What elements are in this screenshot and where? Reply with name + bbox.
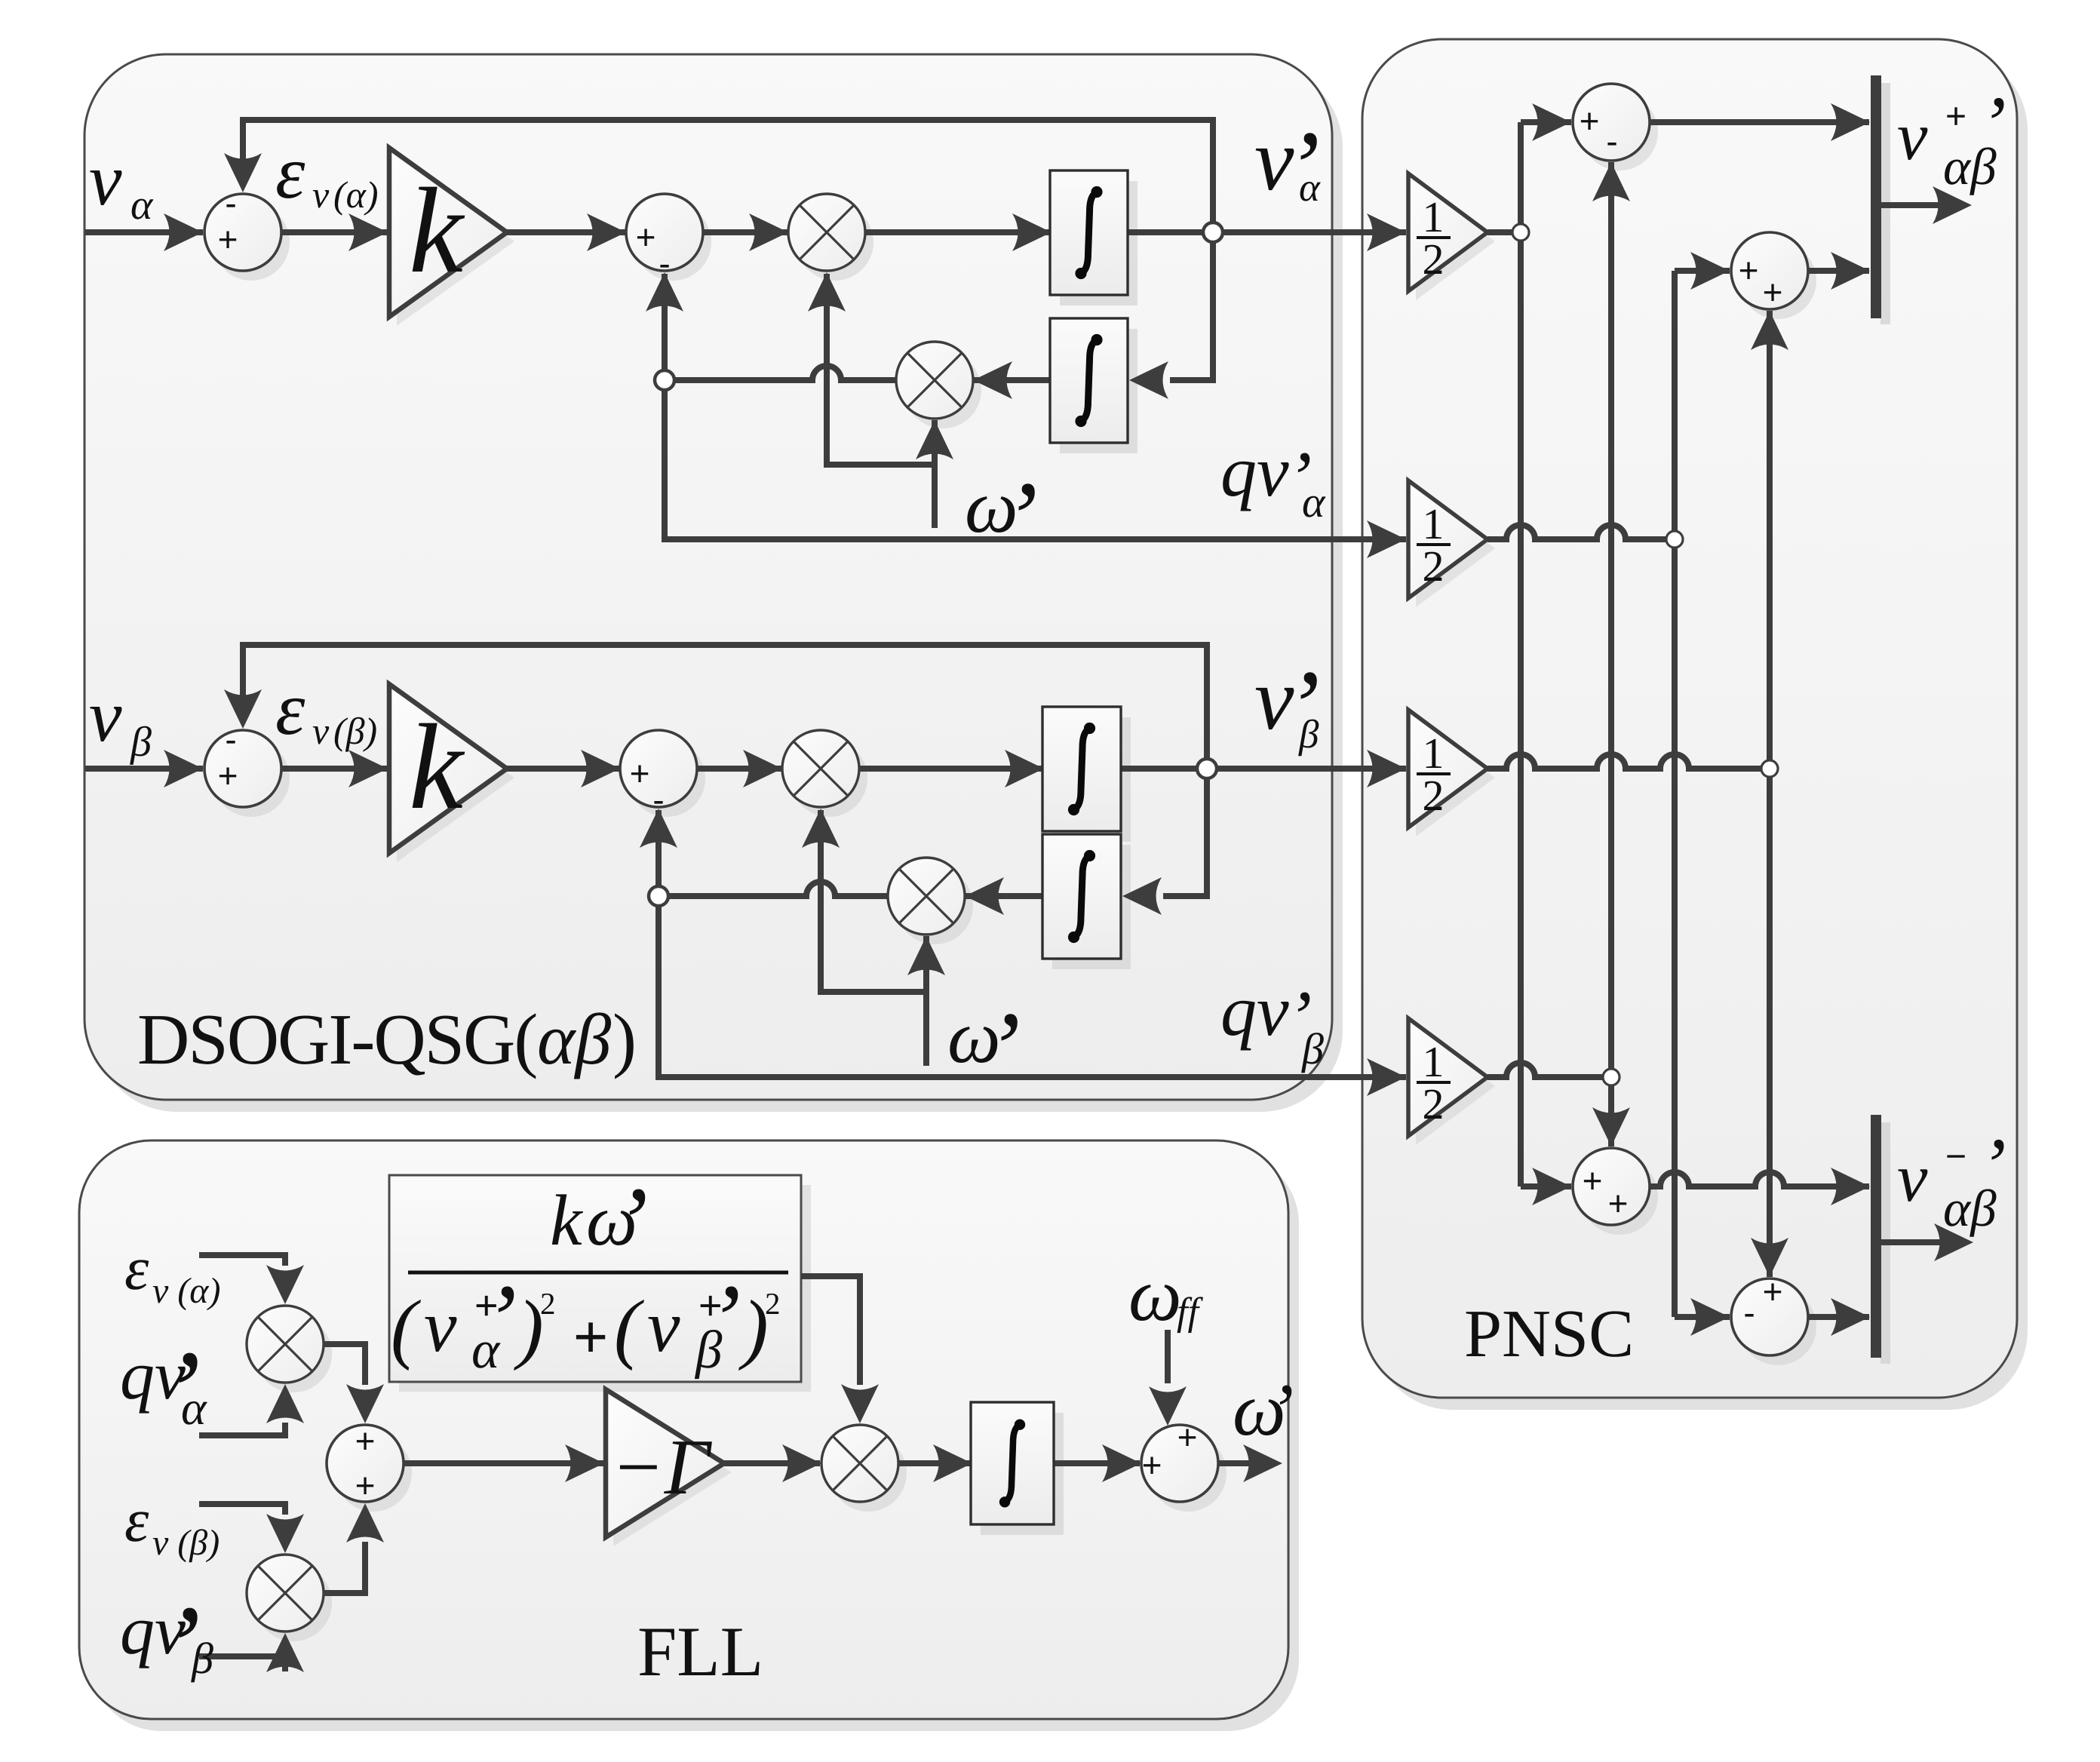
svg-text:): )	[738, 1285, 769, 1371]
svg-text:(: (	[391, 1285, 421, 1371]
svg-text:−: −	[1945, 1137, 1966, 1177]
svg-text:+: +	[1608, 1183, 1629, 1223]
svg-text:+: +	[1177, 1417, 1198, 1457]
svg-text:): )	[514, 1285, 544, 1371]
svg-text:ε: ε	[124, 1486, 149, 1555]
svg-text:v (β): v (β)	[152, 1523, 220, 1563]
svg-text:β: β	[130, 719, 152, 766]
svg-text:2: 2	[1423, 771, 1445, 820]
svg-text:α: α	[130, 182, 154, 229]
svg-text:(: (	[614, 1285, 644, 1371]
svg-text:αβ: αβ	[537, 999, 611, 1079]
svg-text:αβ: αβ	[1943, 1180, 1997, 1237]
svg-text:+: +	[1142, 1445, 1162, 1484]
svg-text:DSOGI-QSG(: DSOGI-QSG(	[137, 999, 536, 1079]
svg-text:FLL: FLL	[637, 1613, 763, 1691]
svg-text:+: +	[573, 1303, 608, 1370]
svg-text:qv: qv	[1220, 970, 1289, 1051]
svg-text:+: +	[1580, 101, 1600, 140]
svg-text:v (α): v (α)	[152, 1271, 220, 1311]
svg-text:k: k	[409, 164, 465, 299]
svg-text:β: β	[1298, 713, 1319, 757]
svg-text:2: 2	[1423, 1079, 1445, 1128]
svg-text:β: β	[191, 1634, 213, 1683]
svg-text:+: +	[218, 756, 238, 795]
svg-text:(β): (β)	[333, 710, 377, 752]
svg-text:v: v	[312, 173, 330, 216]
svg-text:’: ’	[986, 990, 1021, 1106]
svg-text:k: k	[550, 1180, 584, 1260]
svg-text:v: v	[647, 1286, 680, 1368]
svg-text:-: -	[652, 780, 664, 819]
svg-text:’: ’	[1003, 460, 1038, 576]
svg-text:2: 2	[540, 1286, 556, 1321]
svg-text:α: α	[181, 1381, 207, 1435]
svg-text:ω: ω	[1128, 1253, 1182, 1337]
svg-text:): )	[612, 999, 637, 1079]
svg-text:α: α	[1302, 477, 1326, 526]
svg-text:+: +	[355, 1466, 376, 1505]
svg-text:-: -	[1606, 121, 1617, 161]
svg-text:2: 2	[1423, 542, 1445, 591]
svg-text:v: v	[89, 140, 122, 221]
svg-text:+: +	[630, 754, 650, 793]
svg-text:+: +	[1739, 250, 1759, 290]
svg-text:β: β	[694, 1321, 723, 1380]
svg-text:v: v	[1897, 1140, 1928, 1216]
svg-text:v: v	[1897, 98, 1928, 174]
svg-text:v: v	[89, 676, 122, 757]
svg-text:ε: ε	[124, 1234, 149, 1303]
svg-text:-: -	[225, 720, 236, 759]
svg-text:+: +	[1945, 97, 1966, 137]
svg-text:qv: qv	[1220, 431, 1289, 511]
svg-text:+: +	[355, 1421, 376, 1460]
svg-text:-: -	[225, 183, 236, 223]
svg-text:+: +	[1763, 272, 1783, 312]
svg-text:’: ’	[1269, 1368, 1294, 1452]
svg-text:−Γ: −Γ	[611, 1423, 713, 1511]
svg-text:+: +	[1763, 1272, 1783, 1311]
svg-text:-: -	[659, 244, 670, 283]
svg-text:ε: ε	[275, 667, 305, 751]
svg-text:2: 2	[765, 1286, 781, 1321]
svg-text:α: α	[1299, 166, 1321, 210]
svg-text:ε: ε	[275, 130, 305, 214]
svg-text:(α): (α)	[333, 173, 379, 216]
svg-text:k: k	[409, 700, 465, 835]
svg-text:PNSC: PNSC	[1464, 1297, 1634, 1371]
svg-text:+: +	[1583, 1161, 1603, 1200]
svg-text:’: ’	[615, 1166, 648, 1278]
svg-text:αβ: αβ	[1943, 138, 1997, 195]
svg-text:-: -	[1743, 1293, 1755, 1332]
svg-text:v: v	[312, 710, 330, 752]
svg-text:2: 2	[1423, 235, 1445, 284]
svg-text:+: +	[218, 219, 238, 259]
svg-text:β: β	[1301, 1024, 1324, 1073]
svg-text:+: +	[636, 217, 656, 256]
svg-text:α: α	[471, 1321, 501, 1380]
svg-text:v: v	[424, 1286, 457, 1368]
